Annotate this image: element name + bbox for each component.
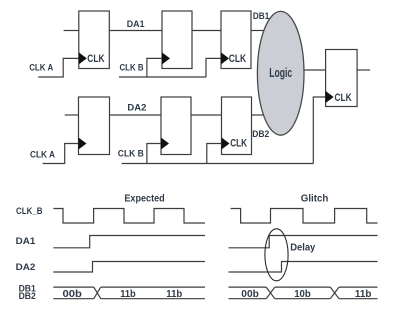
wire CLK B row2 horizontal [122, 163, 314, 165]
wire DB1 net U3-logic [251, 30, 264, 32]
svg-text:CLK B: CLK B [118, 149, 144, 160]
svg-text:Delay: Delay [290, 243, 316, 254]
bus DB expected segment 00b [53, 286, 93, 288]
waveform DA2 expected [53, 262, 205, 273]
svg-text:00b: 00b [63, 289, 82, 300]
bus DB expected segment 11b [101, 286, 205, 288]
bus DB glitch segment 10b [275, 286, 331, 288]
flip-flop U7 box [326, 50, 358, 107]
svg-text:Expected: Expected [124, 194, 164, 205]
wire D-input stub U1 [64, 30, 79, 32]
flip-flop U6 box [222, 97, 252, 155]
clock triangle U7 [326, 91, 334, 103]
svg-text:CLK: CLK [229, 53, 247, 65]
wire logic to U7 D-input [304, 69, 326, 71]
clock triangle U4 [79, 138, 87, 150]
svg-text:DA1: DA1 [16, 236, 36, 247]
bus DB expected crossing X [94, 287, 101, 299]
wire CLK A row2 [43, 144, 79, 164]
waveform DA2 glitch [229, 262, 378, 273]
svg-text:DB2: DB2 [19, 291, 36, 302]
clock triangle U1 [79, 52, 87, 64]
wire DA1 net U1-U2 [109, 30, 162, 32]
waveform CLK_B expected [53, 209, 205, 224]
bus DB glitch crossing X1 [266, 287, 275, 299]
logic block ellipse [257, 11, 304, 135]
svg-text:CLK A: CLK A [29, 63, 53, 74]
clock triangle U6 [222, 138, 230, 150]
svg-text:00b: 00b [241, 289, 259, 300]
svg-text:CLK: CLK [230, 138, 247, 150]
svg-text:CLK: CLK [87, 53, 104, 65]
wire CLK B row2 to U7 clock [313, 97, 325, 164]
svg-text:DB1: DB1 [253, 11, 270, 22]
bus DB glitch segment 11b [339, 286, 378, 288]
svg-text:11b: 11b [355, 289, 372, 300]
wire CLK B row2 branch to U6 [207, 144, 222, 164]
svg-text:11b: 11b [166, 289, 182, 300]
svg-text:DA1: DA1 [127, 19, 145, 30]
wire CLK B row1 branch to U2 [147, 58, 162, 77]
svg-text:DA2: DA2 [127, 103, 146, 114]
wire U7 output stub [357, 69, 370, 71]
clock triangle U2 [162, 52, 170, 64]
svg-text:Glitch: Glitch [301, 193, 329, 204]
wire DA2 net U4-U5 [110, 114, 162, 116]
wire CLK B row1 horizontal [119, 76, 206, 78]
flip-flop U4 box [79, 97, 110, 155]
svg-text:CLK B: CLK B [120, 62, 144, 73]
bus DB glitch segment 00b [229, 286, 267, 288]
flip-flop U2 box [162, 11, 192, 69]
svg-text:CLK A: CLK A [30, 149, 55, 160]
clock triangle U5 [161, 138, 169, 150]
wire CLK A row1 [38, 58, 79, 77]
delay ellipse annotation [265, 229, 288, 281]
flip-flop U5 box [161, 97, 191, 155]
wire U2-U3 [192, 30, 221, 32]
waveform DA1 glitch [229, 236, 378, 248]
svg-text:CLK_B: CLK_B [16, 206, 43, 217]
svg-text:11b: 11b [120, 289, 136, 300]
svg-text:CLK: CLK [335, 92, 352, 104]
wire DB2 net U6-logic [252, 114, 264, 116]
wire U5-U6 [191, 114, 222, 116]
waveform DA1 expected [53, 236, 205, 248]
wire D-input stub U4 [65, 114, 79, 116]
flip-flop U3 box [221, 11, 251, 69]
bus DB glitch crossing X2 [330, 287, 339, 299]
clock triangle U3 [221, 52, 229, 64]
flip-flop U1 box [79, 11, 110, 69]
waveform CLK_B glitch [231, 209, 378, 224]
svg-text:Logic: Logic [269, 66, 292, 80]
svg-text:10b: 10b [294, 289, 311, 300]
svg-text:DA2: DA2 [16, 262, 36, 273]
svg-text:DB2: DB2 [252, 129, 269, 140]
wire CLK B row1 branch to U3 [206, 58, 221, 77]
wire CLK B row2 branch to U5 [147, 144, 161, 164]
